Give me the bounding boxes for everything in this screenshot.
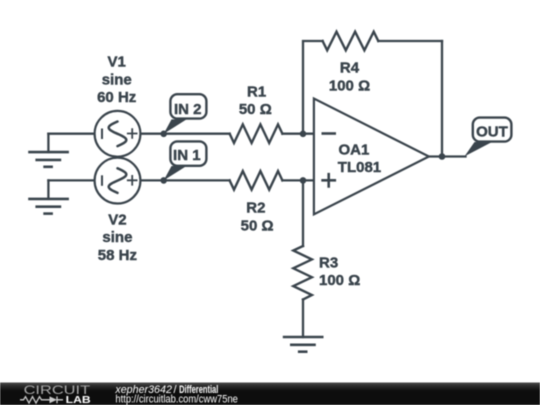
svg-text:R2: R2: [246, 200, 265, 217]
svg-text:50 Ω: 50 Ω: [241, 217, 274, 234]
svg-text:LAB: LAB: [66, 395, 91, 405]
svg-text:V1: V1: [108, 54, 126, 71]
svg-text:OA1: OA1: [339, 141, 370, 158]
svg-text:V2: V2: [108, 211, 126, 228]
svg-text:sine: sine: [102, 229, 132, 246]
svg-text:TL081: TL081: [338, 159, 381, 176]
svg-text:60 Hz: 60 Hz: [97, 89, 136, 106]
svg-text:IN 1: IN 1: [173, 147, 201, 164]
svg-text:R3: R3: [319, 255, 338, 272]
svg-text:58 Hz: 58 Hz: [98, 247, 137, 264]
svg-text:100 Ω: 100 Ω: [319, 272, 360, 289]
svg-text:R4: R4: [340, 60, 360, 77]
svg-text:http://circuitlab.com/cww75ne: http://circuitlab.com/cww75ne: [115, 394, 237, 405]
svg-text:50 Ω: 50 Ω: [239, 101, 272, 118]
svg-text:R1: R1: [247, 83, 266, 100]
svg-text:sine: sine: [102, 71, 132, 88]
svg-text:OUT: OUT: [476, 123, 508, 140]
svg-text:IN 2: IN 2: [174, 101, 202, 118]
svg-text:100 Ω: 100 Ω: [329, 78, 370, 95]
